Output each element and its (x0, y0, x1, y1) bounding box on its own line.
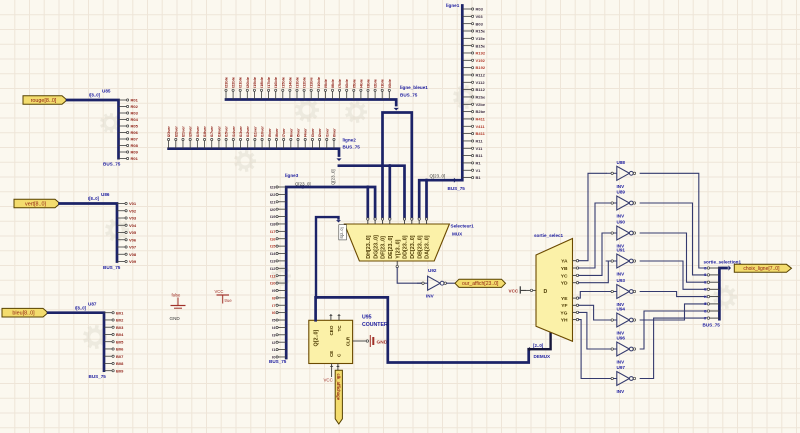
svg-text:V05: V05 (129, 230, 137, 235)
svg-text:U85: U85 (102, 89, 111, 94)
svg-text:choix_ligne[7..0]: choix_ligne[7..0] (743, 266, 780, 272)
bus ligne2 horizontal (169, 149, 342, 161)
svg-text:YC: YC (561, 273, 568, 279)
svg-text:U86: U86 (101, 192, 110, 197)
mux select label S[2..0] (339, 225, 347, 240)
svg-text:U87: U87 (88, 302, 97, 307)
label ligne_bleue1 (400, 85, 428, 90)
bus ligne_bleue1 to mux pins DF DC (383, 113, 412, 218)
svg-text:I3: I3 (704, 288, 707, 292)
svg-text:DC[23..0]: DC[23..0] (410, 235, 416, 259)
svg-text:CEO: CEO (329, 325, 334, 335)
svg-text:I11ble: I11ble (309, 76, 314, 88)
svg-text:I1: I1 (704, 273, 707, 277)
svg-text:R08: R08 (131, 143, 139, 148)
counter U95 body (309, 320, 353, 363)
label U93 (617, 278, 626, 283)
bus select counter to mux (316, 217, 341, 297)
svg-text:I21ble: I21ble (238, 76, 243, 88)
svg-text:I20ver: I20ver (188, 126, 193, 138)
label sortie_selection1 (704, 260, 742, 265)
svg-text:ligne_bleue1: ligne_bleue1 (400, 85, 428, 90)
label U96 (617, 336, 626, 341)
svg-text:I0: I0 (704, 266, 707, 270)
svg-text:B07: B07 (116, 354, 124, 359)
svg-text:I16ble: I16ble (273, 76, 278, 88)
svg-text:U94: U94 (617, 307, 626, 312)
label BUS_75 ligne3 (269, 359, 287, 364)
svg-text:I9ble: I9ble (323, 78, 328, 88)
svg-text:I17ble: I17ble (266, 76, 271, 88)
svg-text:I19: I19 (270, 214, 276, 219)
svg-text:R03: R03 (476, 7, 484, 12)
mux top pins (367, 218, 428, 224)
svg-text:R192: R192 (476, 51, 486, 56)
svg-text:I22: I22 (270, 192, 276, 197)
label sortie_selec1 (534, 233, 564, 238)
svg-text:D: D (544, 289, 548, 295)
svg-text:I18ver: I18ver (202, 126, 207, 138)
label DEMUX (534, 354, 552, 359)
svg-text:I4ver: I4ver (303, 128, 308, 138)
svg-text:DA[23..0]: DA[23..0] (425, 235, 431, 259)
svg-text:I17ver: I17ver (209, 126, 214, 138)
wire U89 to I1 (640, 203, 706, 275)
svg-text:VCC: VCC (324, 378, 333, 383)
svg-text:YG: YG (560, 310, 567, 316)
svg-text:BUS_75: BUS_75 (103, 265, 121, 270)
wire YH to U97 (579, 320, 607, 379)
svg-text:ligne1: ligne1 (446, 3, 460, 8)
svg-text:VCC: VCC (509, 289, 519, 294)
svg-text:R07: R07 (131, 137, 139, 142)
wire YD to U91 (579, 261, 609, 283)
svg-text:TC: TC (337, 325, 342, 332)
svg-text:V08: V08 (129, 252, 137, 257)
label I[8..0] vert (88, 196, 100, 201)
svg-text:rouge[8..0]: rouge[8..0] (31, 98, 57, 104)
label I[8..0] rouge (89, 93, 101, 98)
svg-text:YB: YB (561, 266, 568, 272)
svg-text:I10ble: I10ble (316, 76, 321, 88)
svg-text:I6ble: I6ble (344, 78, 349, 88)
label U92 (428, 268, 437, 273)
svg-text:INV: INV (617, 184, 626, 189)
bus Q ligne2 to mux pins DE DD (339, 164, 405, 218)
wire U94 to I5 (640, 304, 706, 320)
bus sortie_selection1 (719, 265, 731, 319)
label U90 (617, 220, 626, 225)
counter pin C (336, 364, 340, 371)
label U88 (617, 160, 626, 165)
svg-text:Selecteur1: Selecteur1 (451, 224, 475, 229)
svg-text:DE[23..0]: DE[23..0] (388, 236, 394, 259)
svg-text:DB[23..0]: DB[23..0] (417, 235, 423, 259)
svg-text:R15e: R15e (476, 29, 486, 34)
svg-text:BUS_75: BUS_75 (103, 162, 121, 167)
port choix_ligne[7..0] (734, 264, 791, 272)
svg-text:I12ver: I12ver (245, 126, 250, 138)
svg-text:I10ver: I10ver (260, 126, 265, 138)
svg-text:R05: R05 (131, 124, 139, 129)
svg-text:I19ver: I19ver (195, 126, 200, 138)
bus ligne3 vertical (286, 185, 375, 358)
svg-text:I1ble: I1ble (380, 78, 385, 88)
svg-text:I14ver: I14ver (231, 126, 236, 138)
wire Y output to inverter U92 (397, 268, 421, 283)
svg-text:DG[23..0]: DG[23..0] (373, 235, 379, 259)
svg-text:I1ver: I1ver (324, 128, 329, 138)
inverter U92 (417, 276, 446, 290)
svg-text:B03: B03 (476, 21, 484, 26)
counter pin CLR to GND cell (353, 335, 388, 347)
svg-text:BUS_75: BUS_75 (448, 186, 466, 191)
svg-text:V04: V04 (129, 223, 137, 228)
svg-text:B112: B112 (476, 87, 486, 92)
svg-text:I3ble: I3ble (366, 78, 371, 88)
inverter U88 (606, 166, 636, 180)
demux input pin D (521, 289, 526, 291)
svg-text:Y[23..0]: Y[23..0] (395, 239, 401, 258)
svg-text:I20: I20 (270, 207, 276, 212)
svg-text:U93: U93 (617, 278, 626, 283)
svg-text:V2be: V2be (476, 102, 486, 107)
svg-text:YH: YH (561, 318, 568, 324)
svg-text:sortie_selection1: sortie_selection1 (704, 260, 742, 265)
label U85 (102, 89, 111, 94)
svg-text:I22ver: I22ver (173, 126, 178, 138)
port clk_affichage vertical (335, 370, 342, 424)
svg-text:I16: I16 (270, 236, 276, 241)
label BUS_75 vert (103, 265, 121, 270)
svg-text:ligne3: ligne3 (285, 173, 299, 178)
label BUS_75 rouge (103, 162, 121, 167)
svg-text:U88: U88 (617, 160, 626, 165)
svg-text:BUS_75: BUS_75 (400, 93, 418, 98)
svg-text:DEMUX: DEMUX (534, 354, 552, 359)
label INV U96 (617, 360, 626, 365)
wire YF to U94 (579, 305, 607, 320)
svg-text:I5: I5 (704, 302, 707, 306)
bus ligne_bleue1 horizontal (226, 100, 399, 111)
svg-text:MUX: MUX (452, 232, 463, 237)
svg-text:I4: I4 (704, 295, 707, 299)
label INV U88 (617, 184, 626, 189)
label Selecteur1 (451, 224, 475, 229)
svg-text:V07: V07 (129, 245, 137, 250)
svg-text:BUS_75: BUS_75 (269, 359, 287, 364)
svg-text:INV: INV (617, 272, 626, 277)
svg-text:V112: V112 (476, 80, 486, 85)
svg-text:I21ver: I21ver (180, 126, 185, 138)
svg-text:I11: I11 (270, 273, 276, 278)
label ligne2 (343, 138, 357, 143)
wire U97 to I7 (640, 318, 706, 378)
svg-text:B2be: B2be (476, 109, 487, 114)
power symbol VCC true (215, 289, 233, 304)
bleu bit wires B01-B09 (104, 310, 124, 373)
svg-text:I5ver: I5ver (296, 128, 301, 138)
svg-text:I15: I15 (270, 244, 276, 249)
svg-text:B06: B06 (116, 347, 124, 352)
svg-text:R01: R01 (131, 156, 139, 161)
wire U88 to I0 (640, 173, 706, 268)
inverter U94 (606, 313, 636, 327)
svg-text:I8ble: I8ble (330, 78, 335, 88)
svg-text:I9ver: I9ver (267, 128, 272, 138)
wire bus from bleu port (48, 313, 104, 371)
svg-text:Q[2..0]: Q[2..0] (314, 330, 320, 347)
label U94 (617, 307, 626, 312)
svg-text:I2: I2 (704, 281, 707, 285)
svg-text:CLR: CLR (345, 336, 350, 346)
svg-text:R03: R03 (131, 111, 139, 116)
svg-text:sortie_selec1: sortie_selec1 (534, 233, 564, 238)
label COUNTER (362, 322, 388, 328)
svg-text:I21: I21 (270, 199, 276, 204)
svg-text:I17: I17 (270, 229, 276, 234)
svg-text:B02: B02 (116, 318, 124, 323)
svg-text:I2ver: I2ver (317, 128, 322, 138)
svg-text:B411: B411 (476, 131, 486, 136)
svg-text:R01: R01 (131, 98, 139, 103)
label U86 (101, 192, 110, 197)
label U97 (617, 365, 626, 370)
svg-text:DD[23..0]: DD[23..0] (403, 235, 409, 259)
label U89 (617, 190, 626, 195)
counter pin CE with VCC (324, 364, 334, 383)
svg-text:I22ble: I22ble (231, 76, 236, 88)
label INV U89 (617, 214, 626, 219)
svg-text:I7ble: I7ble (337, 78, 342, 88)
svg-text:R2be: R2be (476, 95, 487, 100)
svg-text:V01: V01 (129, 201, 137, 206)
svg-text:V11: V11 (476, 146, 484, 151)
svg-text:GND: GND (377, 339, 388, 345)
svg-text:R1: R1 (476, 161, 482, 166)
svg-text:R06: R06 (131, 130, 139, 135)
demux sortie_selec1 body (536, 239, 573, 342)
label INV U94 (617, 331, 626, 336)
svg-text:R04: R04 (131, 117, 139, 122)
port our_affich[23..0] (455, 279, 506, 287)
svg-text:true: true (225, 298, 233, 303)
label Q[23..0] ligne1 (430, 174, 446, 179)
svg-text:I23ble: I23ble (224, 76, 229, 88)
svg-text:false: false (172, 293, 182, 298)
svg-text:I14ble: I14ble (287, 76, 292, 88)
svg-text:I20ble: I20ble (245, 76, 250, 88)
svg-text:I[8..0]: I[8..0] (75, 306, 87, 311)
svg-text:U96: U96 (617, 336, 626, 341)
svg-text:DH[23..0]: DH[23..0] (366, 235, 372, 259)
svg-text:I5ble: I5ble (351, 78, 356, 88)
svg-text:V02: V02 (129, 208, 137, 213)
svg-text:INV: INV (617, 389, 626, 394)
svg-text:YD: YD (561, 281, 568, 287)
svg-text:I10: I10 (270, 281, 276, 286)
svg-text:INV: INV (617, 360, 626, 365)
label [2..0] demux (533, 343, 544, 348)
inverter U89 (606, 196, 636, 210)
svg-text:YF: YF (561, 303, 567, 309)
svg-text:vert[8..0]: vert[8..0] (25, 201, 46, 207)
label U87 (88, 302, 97, 307)
label ligne3 (285, 173, 299, 178)
svg-text:I[8..0]: I[8..0] (89, 93, 101, 98)
wire bus from vert port (60, 204, 118, 262)
svg-text:V09: V09 (129, 259, 137, 264)
wire U92 to our_affich port (447, 282, 457, 284)
svg-text:YE: YE (561, 296, 568, 302)
svg-text:R02: R02 (131, 104, 139, 109)
svg-text:YA: YA (561, 259, 568, 265)
svg-text:I12ble: I12ble (302, 76, 307, 88)
svg-text:I0ble: I0ble (387, 78, 392, 88)
label INV U97 (617, 389, 626, 394)
bus counter Q to demux select (314, 296, 528, 363)
wire YA to U88 (579, 173, 607, 260)
svg-text:I12: I12 (270, 266, 276, 271)
svg-text:B192: B192 (476, 65, 486, 70)
label Q[23..0] ligne3 (295, 182, 311, 187)
svg-text:DF[23..0]: DF[23..0] (381, 236, 387, 259)
svg-text:our_affich[23..0]: our_affich[23..0] (462, 281, 499, 287)
svg-text:INV: INV (617, 214, 626, 219)
svg-text:INV: INV (426, 293, 435, 298)
svg-text:I13: I13 (270, 259, 276, 264)
inverter U90 (606, 226, 636, 240)
svg-text:U89: U89 (617, 190, 626, 195)
wire YB to U89 (579, 203, 607, 268)
svg-text:U90: U90 (617, 220, 626, 225)
label INV U90 (617, 244, 626, 249)
svg-text:B01: B01 (116, 310, 124, 315)
svg-text:I8ver: I8ver (274, 128, 279, 138)
svg-text:R09: R09 (131, 150, 139, 155)
svg-text:I7ver: I7ver (281, 128, 286, 138)
svg-text:I23: I23 (270, 185, 276, 190)
wire U90 to I2 (640, 233, 706, 282)
wire YC to U90 (579, 233, 607, 275)
svg-text:B03: B03 (116, 325, 124, 330)
svg-text:BUS_75: BUS_75 (703, 323, 721, 328)
svg-text:I14: I14 (270, 251, 276, 256)
label INV U93 (617, 302, 626, 307)
svg-text:Q[23..0]: Q[23..0] (331, 169, 336, 185)
svg-text:GND: GND (170, 316, 181, 321)
label BUS_75 ligne_bleue1 (400, 93, 418, 98)
svg-text:I19ble: I19ble (252, 76, 257, 88)
label BUS_75 ligne1 (448, 186, 466, 191)
inverter U97 (606, 372, 636, 386)
svg-text:I3ver: I3ver (310, 128, 315, 138)
svg-text:V192: V192 (476, 58, 486, 63)
wire YE to U93 (579, 292, 607, 299)
svg-text:CE: CE (329, 351, 334, 357)
port vert[8..0] (14, 199, 60, 208)
wire YG to U96 (579, 312, 607, 349)
svg-text:B04: B04 (116, 332, 124, 337)
svg-text:I15ver: I15ver (224, 126, 229, 138)
svg-text:V03: V03 (476, 14, 484, 19)
svg-text:U91: U91 (617, 248, 626, 253)
svg-text:R411: R411 (476, 117, 486, 122)
svg-text:I13ver: I13ver (238, 126, 243, 138)
label INV U92 (426, 293, 435, 298)
svg-text:U97: U97 (617, 365, 626, 370)
mux Selecteur1 body (344, 224, 449, 261)
demux output pins YA-YH (573, 260, 579, 321)
svg-text:I11ver: I11ver (252, 126, 257, 138)
svg-text:V15e: V15e (476, 36, 486, 41)
svg-text:I23ver: I23ver (166, 126, 171, 138)
ligne_bleue1 bit wires I23ble-I0ble (224, 76, 392, 99)
svg-text:BUS_75: BUS_75 (89, 374, 107, 379)
label BUS_75 sortie (703, 323, 721, 328)
svg-text:clk_affichage: clk_affichage (336, 374, 341, 401)
port rouge[8..0] (23, 96, 67, 105)
wire bus from rouge port (67, 100, 119, 158)
svg-text:Q[23..0]: Q[23..0] (430, 174, 446, 179)
label BUS_75 ligne2 (343, 145, 361, 150)
svg-text:bleu[8..0]: bleu[8..0] (12, 311, 35, 317)
watermark gears (84, 85, 737, 359)
svg-text:I6: I6 (704, 309, 707, 313)
svg-text:U92: U92 (428, 268, 437, 273)
svg-text:B15e: B15e (476, 43, 486, 48)
wire U91 to I3 (640, 261, 706, 289)
port bleu[8..0] (2, 308, 48, 317)
svg-text:I18: I18 (270, 222, 276, 227)
label Q[23..0] ligne2 vertical (331, 169, 336, 185)
label INV U91 (617, 272, 626, 277)
power symbol GND false (170, 293, 186, 322)
svg-text:I18ble: I18ble (259, 76, 264, 88)
svg-text:S[2..0]: S[2..0] (339, 227, 344, 238)
svg-text:R112: R112 (476, 73, 486, 78)
vert bit wires V01-V09 (117, 201, 137, 264)
svg-text:COUNTER: COUNTER (362, 322, 388, 328)
inverter U93 (606, 285, 636, 299)
counter pins CEO TC (329, 314, 341, 320)
svg-text:B05: B05 (116, 339, 124, 344)
svg-text:ligne2: ligne2 (343, 138, 357, 143)
label ligne1 (446, 3, 460, 8)
svg-text:I16ver: I16ver (216, 126, 221, 138)
power VCC to demux D (509, 286, 537, 293)
svg-text:I4ble: I4ble (358, 78, 363, 88)
rouge bit wires R01-R09 (119, 98, 139, 162)
svg-text:R11: R11 (476, 139, 484, 144)
label MUX (452, 232, 463, 237)
ligne3 bit wires I23-I0 (270, 185, 286, 360)
svg-text:B09: B09 (116, 368, 124, 373)
label I[8..0] bleu (75, 306, 87, 311)
wire U96 to I6 (640, 311, 706, 349)
svg-text:I13ble: I13ble (295, 76, 300, 88)
label BUS_75 bleu (89, 374, 107, 379)
wire U93 to I4 (640, 292, 706, 297)
svg-text:B08: B08 (116, 361, 124, 366)
svg-text:I15ble: I15ble (280, 76, 285, 88)
label U91 (617, 248, 626, 253)
wire demux select entry (529, 333, 551, 352)
svg-text:I2ble: I2ble (373, 78, 378, 88)
svg-text:I0ver: I0ver (331, 128, 336, 138)
svg-text:B11: B11 (476, 153, 484, 158)
svg-text:V411: V411 (476, 124, 486, 129)
